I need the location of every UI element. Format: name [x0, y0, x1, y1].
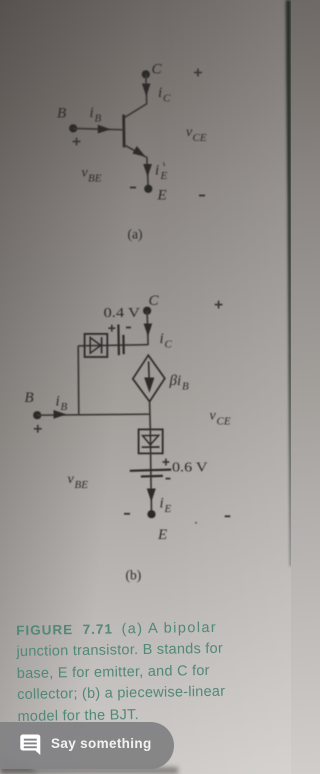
label E (a) — [157, 188, 167, 204]
label 0.4 V — [104, 306, 141, 321]
wire collector diagonal (a) — [124, 104, 147, 118]
battery 0.4V long plate — [117, 325, 120, 356]
svg-text:(a): (a) — [128, 227, 143, 242]
wire emitter diagonal (a) — [124, 145, 146, 157]
bottom-left dark corner — [0, 700, 291, 774]
diode D1 — [90, 337, 101, 353]
wire base (a) — [73, 128, 124, 129]
svg-text:i: i — [160, 331, 164, 347]
label iB (a) — [90, 105, 102, 125]
label B (a) — [57, 106, 66, 122]
svg-text:E: E — [160, 170, 168, 182]
svg-text:B: B — [182, 381, 189, 393]
chat pill overlay — [0, 722, 174, 769]
node E (a) — [144, 185, 152, 193]
current source arrow — [144, 362, 154, 393]
label + (vCE top, b) — [215, 301, 223, 309]
battery 0.6V long plate — [130, 470, 171, 471]
label + (vBE, a) — [73, 138, 81, 146]
svg-text:0.4 V: 0.4 V — [104, 306, 141, 321]
current arrow iC (a) — [142, 84, 151, 97]
wire through diode box — [149, 429, 152, 476]
node C (b) — [143, 307, 151, 315]
svg-text:B: B — [95, 113, 102, 125]
label B (b) — [25, 390, 34, 406]
label C (b) — [149, 293, 160, 309]
svg-text:B: B — [25, 390, 34, 406]
label vBE (b) — [68, 472, 89, 491]
emitter arrow (a) — [133, 146, 146, 157]
wire diamond to diode box — [149, 402, 152, 430]
current arrow iB (b) — [54, 410, 67, 419]
wire top branch — [78, 345, 148, 346]
label iC (b) — [160, 331, 173, 351]
label + (vBE, b) — [34, 425, 42, 433]
label E (b) — [157, 527, 167, 543]
current arrow iE (b) — [147, 489, 156, 503]
node C (a) — [142, 70, 150, 78]
node B (a) — [69, 124, 77, 132]
label beta iB — [169, 373, 190, 393]
svg-text:i: i — [56, 394, 60, 410]
transistor base bar (a) — [122, 115, 125, 148]
node B (b) — [33, 411, 41, 419]
current arrow iB (a) — [98, 125, 111, 134]
current arrow iE (a) — [143, 164, 152, 177]
svg-text:i: i — [160, 496, 164, 512]
svg-text:C: C — [163, 93, 171, 105]
wire collector vertical (b) — [147, 311, 148, 345]
svg-text:v: v — [68, 472, 75, 487]
label iB (b) — [56, 394, 68, 414]
label iE (a) — [155, 163, 168, 183]
caption (b) — [126, 568, 142, 583]
battery 0.4V short plate — [122, 335, 124, 354]
label C (a) — [152, 62, 163, 78]
label vCE (b) — [210, 409, 231, 428]
svg-text:(b): (b) — [126, 568, 142, 583]
svg-text:BE: BE — [75, 479, 89, 491]
svg-text:E: E — [164, 503, 172, 515]
label + (0.4V) — [108, 325, 115, 332]
svg-text:CE: CE — [217, 416, 231, 428]
svg-text:i: i — [158, 85, 162, 101]
current arrow iC (b) — [144, 324, 153, 337]
svg-text:B: B — [57, 106, 66, 122]
diode D2 box — [139, 429, 163, 453]
svg-text:i: i — [90, 105, 94, 121]
label minus (vCE bottom, a) — [199, 195, 205, 197]
svg-text:BE: BE — [88, 173, 102, 185]
svg-text:E: E — [157, 527, 167, 543]
wire left branch vertical — [77, 346, 80, 415]
label + (vCE top, a) — [194, 69, 202, 77]
node E (b) — [147, 510, 155, 518]
svg-text:0.6 V: 0.6 V — [172, 461, 208, 476]
stray dot — [195, 522, 197, 524]
battery 0.6V short plate — [141, 475, 163, 478]
svg-text:i: i — [155, 163, 159, 179]
svg-text:CE: CE — [193, 132, 207, 144]
wire collector vertical (a) — [145, 74, 148, 104]
label minus (vBE bottom, b) — [124, 513, 130, 515]
svg-text:C: C — [165, 339, 173, 351]
label + (0.6V) — [163, 459, 170, 466]
figure caption text — [16, 616, 258, 728]
svg-text:B: B — [61, 401, 68, 413]
label minus (0.4V) — [126, 327, 131, 329]
diode D2 — [142, 435, 160, 447]
label minus (vCE bottom, b) — [225, 515, 231, 517]
label iE (b) — [160, 496, 172, 516]
svg-text:E: E — [157, 188, 167, 204]
label vBE (a) — [82, 166, 102, 185]
wire emitter vertical (a) — [147, 157, 149, 189]
diode D1 box — [85, 334, 108, 357]
svg-text:C: C — [152, 62, 163, 78]
label 0.6 V — [172, 461, 208, 476]
dependent current source (diamond) — [133, 355, 165, 401]
label vCE (a) — [186, 125, 207, 144]
svg-text:βi: βi — [169, 373, 182, 389]
svg-text:C: C — [149, 293, 160, 309]
page right dark edge — [286, 0, 291, 566]
label iC (a) — [158, 85, 171, 105]
label minus (vBE bottom, a) — [130, 187, 136, 189]
svg-text:v: v — [210, 409, 217, 424]
wire base (b) — [37, 414, 149, 415]
caption (a) — [128, 227, 143, 242]
label minus (0.6V) — [166, 478, 171, 480]
wire battery to E — [150, 476, 153, 514]
